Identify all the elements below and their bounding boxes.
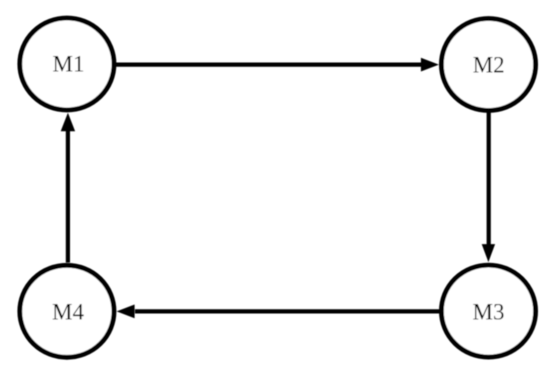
node M1 [20,18,114,110]
node M4 [20,265,114,357]
arrowhead M1 to M2 [421,58,439,72]
svg-text:M1: M1 [53,52,85,77]
arrowhead M4 to M1 [61,113,75,131]
svg-text:M2: M2 [473,52,505,77]
arrowhead M2 to M3 [482,244,495,262]
svg-text:M3: M3 [473,300,505,325]
node M3 [441,265,535,357]
svg-text:M4: M4 [52,299,84,324]
wire M2 to M3 [487,112,491,246]
wire M3 to M4 [135,309,440,313]
wire M4 to M1 [66,131,70,263]
wire M1 to M2 [116,62,423,66]
arrowhead M3 to M4 [117,305,135,319]
node M2 [441,19,535,111]
